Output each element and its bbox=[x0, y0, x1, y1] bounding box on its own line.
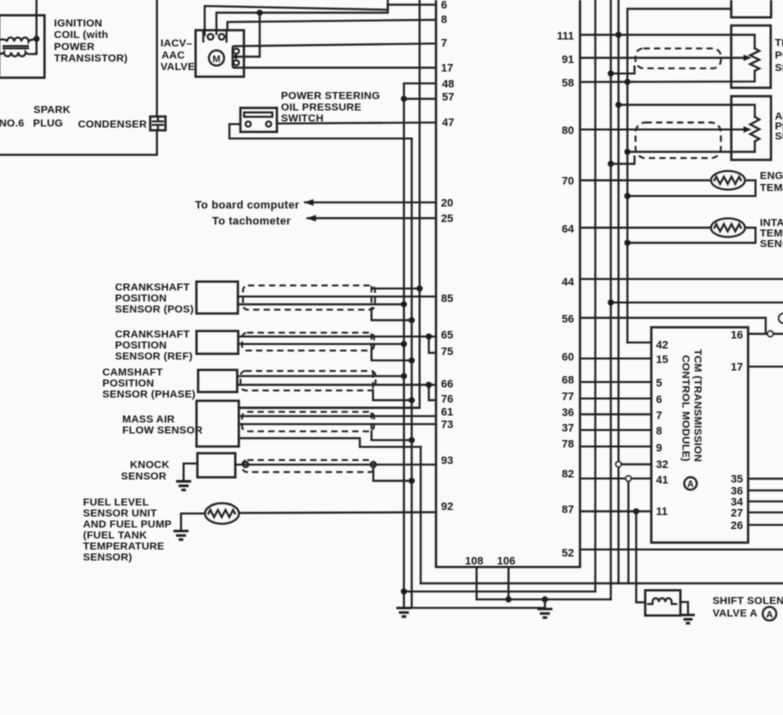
wire ECM pin 111 to TPS supply bbox=[580, 35, 755, 49]
svg-text:COIL (with: COIL (with bbox=[54, 29, 108, 41]
svg-text:48: 48 bbox=[442, 79, 454, 91]
ECM connector box (cut off at top) bbox=[436, 0, 580, 567]
wire bus2 to page edge bbox=[611, 301, 783, 303]
wire TCM 32 to connector on bus3 bbox=[621, 463, 651, 465]
svg-text:SENSOR: SENSOR bbox=[760, 238, 783, 250]
svg-text:IACV–: IACV– bbox=[161, 37, 193, 49]
solenoid ground bbox=[681, 615, 695, 623]
svg-text:61: 61 bbox=[441, 407, 453, 419]
POS signal wire to pin 85 bbox=[238, 295, 436, 297]
svg-text:58: 58 bbox=[562, 77, 574, 89]
crankshaft position sensor (POS) box bbox=[196, 282, 238, 314]
svg-text:VALVE A: VALVE A bbox=[713, 607, 758, 619]
svg-text:THROTTLE: THROTTLE bbox=[775, 37, 783, 49]
shielded cable knock bbox=[242, 460, 375, 472]
svg-text:SENSOR (POS): SENSOR (POS) bbox=[115, 304, 194, 316]
svg-text:TEMPERATURE: TEMPERATURE bbox=[760, 182, 783, 194]
wire bus4 to TCM pin 42 bbox=[627, 341, 651, 343]
circled A shift solenoid bbox=[763, 607, 777, 621]
bus B (shield drain bus) bbox=[412, 139, 545, 608]
svg-text:65: 65 bbox=[441, 330, 453, 342]
bus A (sensor return bus) top corner to pin 48 bbox=[404, 83, 436, 607]
small junction at IACV mid terminal bbox=[234, 55, 238, 59]
wire ECM 56 to TCM 16 connector bbox=[580, 318, 766, 334]
knock signal wire to pin 93 bbox=[235, 464, 436, 466]
To tachometer arrow wire (pin 25) bbox=[308, 217, 437, 219]
solenoid riser from pin 87 wire bbox=[636, 511, 645, 602]
power steering oil pressure switch box bbox=[240, 108, 277, 132]
center ground symbol bbox=[537, 609, 552, 618]
svg-text:SENSOR: SENSOR bbox=[775, 131, 783, 143]
engine temp sensor return to bus4 bbox=[627, 180, 755, 196]
REF return wire to bus A bbox=[238, 343, 404, 345]
svg-text:27: 27 bbox=[731, 507, 743, 519]
svg-text:91: 91 bbox=[562, 54, 574, 66]
switch terminal left bbox=[246, 122, 251, 127]
crankshaft position sensor (REF) box bbox=[197, 331, 239, 354]
svg-text:SENSOR: SENSOR bbox=[775, 62, 783, 74]
REF signal wire to pin 65 bbox=[238, 335, 436, 337]
svg-text:POWER STEERING: POWER STEERING bbox=[281, 90, 380, 102]
intake temp sensor wire (pin 64) bbox=[580, 227, 711, 229]
svg-text:41: 41 bbox=[656, 475, 668, 487]
svg-text:6: 6 bbox=[656, 394, 662, 406]
svg-text:26: 26 bbox=[731, 520, 743, 532]
svg-text:57: 57 bbox=[442, 91, 454, 103]
wire IACV right-top notch to ECM pin 7 bbox=[234, 44, 436, 47]
intake air temp sensor (thermistor) bbox=[711, 218, 745, 237]
ground rail to right (bus C lower to bus3) bbox=[421, 582, 783, 584]
junction bus A / pin 57 wire bbox=[401, 96, 407, 102]
svg-text:108: 108 bbox=[465, 556, 483, 568]
intake temp sensor return to bus4 bbox=[627, 228, 755, 243]
wire TCM 27 to page edge bbox=[748, 511, 783, 513]
wire TCM 16 to page edge bbox=[748, 333, 783, 335]
wire IACV third top terminal to ECM pin 8 bbox=[227, 20, 436, 30]
svg-text:92: 92 bbox=[441, 501, 453, 513]
APS supply wire from bus3 bbox=[619, 105, 755, 117]
wire TCM 35 to page edge bbox=[748, 478, 783, 480]
svg-text:52: 52 bbox=[562, 547, 574, 559]
svg-text:VALVE: VALVE bbox=[161, 61, 195, 73]
svg-text:OIL PRESSURE: OIL PRESSURE bbox=[281, 101, 361, 113]
svg-text:To tachometer: To tachometer bbox=[212, 215, 291, 227]
fuel sensor ground wire bbox=[181, 514, 205, 531]
MAF bottom wire to bus C lower bbox=[239, 438, 421, 447]
wire bus A to ECM pin 57 bbox=[404, 98, 436, 100]
PHASE return wire to bus A bbox=[237, 375, 404, 377]
center ground stem bbox=[544, 599, 546, 608]
engine temp sensor wire (pin 70) bbox=[580, 179, 711, 181]
svg-text:36: 36 bbox=[562, 407, 574, 419]
IACV top terminal coils bbox=[208, 34, 214, 40]
IACV right terminal coils bbox=[233, 49, 239, 54]
connector circle pin 41 bbox=[626, 476, 631, 481]
IACV right terminal bracket bbox=[233, 46, 235, 67]
wire ECM 36 to TCM 7 bbox=[580, 413, 651, 415]
bus1 ground link to bus A bbox=[404, 590, 595, 592]
ignition coil core bars bbox=[3, 45, 30, 47]
connector circle pin 16 bbox=[768, 331, 774, 337]
wire ECM 52 to page edge bbox=[580, 548, 783, 550]
svg-text:7: 7 bbox=[441, 37, 447, 49]
ignition coil box bbox=[0, 15, 45, 77]
svg-text:70: 70 bbox=[562, 175, 574, 187]
ignition coil secondary winding bbox=[0, 52, 37, 56]
APS shield drain to bus2 bbox=[611, 157, 635, 164]
shielded cable POS bbox=[243, 285, 375, 309]
knock sensor ground bbox=[176, 481, 191, 490]
MAF signal wire to pin 73 bbox=[239, 423, 436, 425]
wire ECM 87 to TCM 11 bbox=[580, 510, 651, 512]
svg-text:17: 17 bbox=[441, 63, 453, 75]
junction pin111 / bus3 bbox=[615, 32, 621, 38]
IACV-AAC valve box bbox=[196, 30, 244, 76]
pin 106 wire down from ECM bbox=[507, 567, 509, 599]
svg-text:PLUG: PLUG bbox=[33, 118, 63, 130]
wire ECM 78 to TCM 9 bbox=[580, 445, 651, 447]
svg-text:75: 75 bbox=[441, 346, 453, 358]
IACV top connector notch bbox=[203, 30, 226, 41]
svg-text:ENGINE: ENGINE bbox=[760, 170, 783, 182]
svg-text:85: 85 bbox=[441, 293, 453, 305]
ground line P (108/106 to bus2) bbox=[477, 598, 611, 600]
solenoid ground wire bbox=[680, 602, 688, 615]
svg-text:SPARK: SPARK bbox=[34, 104, 71, 116]
bus4 (sensor ground bus, top corner to cut-off box) bbox=[627, 9, 731, 343]
svg-text:CONDENSER: CONDENSER bbox=[78, 119, 147, 131]
wire from page top down crossing to IACV (middle) bbox=[216, 0, 387, 34]
spark-plug circuit outer box (bottom + right edge) bbox=[0, 130, 157, 155]
PHASE signal wire to pin 66 bbox=[237, 384, 436, 386]
MAF shield drain to bus B bbox=[372, 431, 412, 440]
bus2 (right shield/sensor ground bus) bbox=[610, 0, 612, 599]
svg-text:56: 56 bbox=[562, 313, 574, 325]
knock shield drain to bus B bbox=[373, 467, 411, 481]
shielded cable MAF bbox=[242, 412, 374, 432]
wire ECM 37 to TCM 8 bbox=[580, 429, 651, 431]
svg-text:11: 11 bbox=[656, 506, 668, 518]
PHASE hook to pin 76 bbox=[429, 385, 436, 400]
TPS return / ECM pin 58 wire bbox=[580, 71, 755, 82]
svg-text:35: 35 bbox=[731, 474, 743, 486]
svg-text:66: 66 bbox=[441, 378, 453, 390]
POS shield top drain to bus C bbox=[372, 287, 420, 289]
APS potentiometer resistor bbox=[750, 117, 759, 142]
bus3 (5V reference bus) bbox=[617, 0, 619, 583]
svg-text:93: 93 bbox=[441, 455, 453, 467]
junction middle wire / riser bbox=[257, 10, 263, 16]
wire ECM pin 44 to page edge bbox=[580, 278, 783, 280]
svg-text:IGNITION: IGNITION bbox=[54, 18, 102, 30]
mass air flow sensor box bbox=[197, 401, 239, 447]
svg-text:TCM (TRANSMISSION: TCM (TRANSMISSION bbox=[692, 349, 704, 462]
PHASE shield drain to bus B bbox=[373, 390, 412, 400]
left ground symbol (bus A / bus B) bbox=[396, 608, 411, 617]
svg-text:6: 6 bbox=[441, 0, 447, 12]
solenoid coil symbol bbox=[648, 598, 676, 604]
absolute pressure sensor box bbox=[731, 96, 771, 160]
switch terminal right bbox=[266, 122, 271, 127]
svg-text:111: 111 bbox=[557, 31, 574, 43]
svg-text:64: 64 bbox=[562, 224, 575, 236]
wire ECM 77 to TCM 6 bbox=[580, 397, 651, 399]
ignition coil (transformer) primary winding bbox=[0, 38, 37, 42]
svg-text:POWER: POWER bbox=[54, 41, 95, 53]
svg-text:9: 9 bbox=[656, 442, 662, 454]
svg-text:5: 5 bbox=[656, 378, 662, 390]
bus C upper (from page top to MAF top wire) bbox=[239, 0, 420, 408]
svg-text:SENSOR): SENSOR) bbox=[83, 552, 132, 564]
wire ECM 68 to TCM 5 bbox=[580, 381, 651, 383]
shielded cable REF bbox=[242, 333, 374, 351]
REF shield drain to bus B bbox=[372, 350, 412, 360]
svg-text:32: 32 bbox=[656, 459, 668, 471]
fuel level sensor (resistor in ellipse) bbox=[205, 503, 239, 524]
svg-text:106: 106 bbox=[497, 556, 515, 568]
wire switch left terminal down to shield-ground bus B bbox=[229, 124, 411, 138]
To board computer arrow wire (pin 20) bbox=[305, 201, 436, 203]
TPS potentiometer resistor bbox=[750, 48, 759, 71]
svg-text:82: 82 bbox=[562, 468, 574, 480]
svg-text:SENSOR: SENSOR bbox=[121, 470, 167, 482]
svg-text:CONTROL MODULE): CONTROL MODULE) bbox=[680, 355, 692, 462]
MAF signal wire to pin 61 bbox=[239, 415, 436, 417]
cut-off box at top right bbox=[731, 0, 771, 17]
POS return wire to bus A bbox=[238, 303, 404, 305]
fuel sensor ground bbox=[174, 531, 189, 540]
junction coil/top wire bbox=[33, 36, 39, 42]
svg-text:8: 8 bbox=[656, 426, 662, 438]
shift solenoid valve A box bbox=[645, 590, 680, 615]
junction pin58 / bus4 bbox=[624, 79, 630, 85]
svg-text:7: 7 bbox=[656, 410, 662, 422]
wire ECM 82 to TCM 41 bbox=[580, 477, 651, 479]
MAF top wire (joins bus C upper) bbox=[239, 407, 420, 409]
svg-text:20: 20 bbox=[441, 198, 453, 210]
APS return wire to bus4 bbox=[627, 142, 754, 152]
svg-text:SHIFT SOLENOID: SHIFT SOLENOID bbox=[713, 595, 783, 607]
camshaft position sensor (PHASE) box bbox=[198, 370, 237, 392]
svg-text:KNOCK: KNOCK bbox=[130, 459, 170, 471]
svg-text:87: 87 bbox=[562, 504, 574, 516]
svg-text:SENSOR (REF): SENSOR (REF) bbox=[115, 351, 193, 363]
wire TCM 34 to page edge bbox=[748, 500, 783, 502]
switch slot bbox=[244, 112, 272, 116]
svg-text:15: 15 bbox=[656, 354, 668, 366]
wire IACV top-left terminal to ECM pin 6 bbox=[205, 5, 436, 35]
wire TCM 26 to page edge bbox=[748, 524, 783, 526]
svg-text:8: 8 bbox=[441, 14, 447, 26]
bus C lower (down to ground rail) bbox=[420, 447, 422, 583]
APS wiper arrow (pin 80 wire) bbox=[580, 128, 745, 130]
TPS wiper arrow (pin 91 wire) bbox=[580, 57, 745, 59]
svg-text:To board computer: To board computer bbox=[195, 200, 300, 212]
wire TCM 17 to page edge bbox=[748, 366, 783, 368]
condenser capacitor symbol bbox=[153, 118, 163, 130]
shielded cable APS bbox=[636, 123, 721, 159]
condenser wire up to page top bbox=[156, 0, 158, 117]
svg-text:77: 77 bbox=[562, 391, 574, 403]
svg-text:A: A bbox=[687, 479, 694, 489]
pin 108 wire down from ECM bbox=[476, 567, 478, 599]
connector circle pin 32 bbox=[616, 462, 621, 467]
svg-text:37: 37 bbox=[562, 423, 574, 435]
TPS shield drain to bus2 bbox=[611, 67, 635, 74]
shielded cable PHASE bbox=[241, 371, 376, 391]
svg-text:78: 78 bbox=[562, 439, 574, 451]
svg-text:TRANSISTOR): TRANSISTOR) bbox=[54, 52, 128, 64]
svg-text:17: 17 bbox=[731, 362, 743, 374]
wire TCM 36 to page edge bbox=[748, 489, 783, 491]
connector circle at page edge bbox=[779, 314, 783, 324]
REF hook to pin 75 bbox=[429, 337, 436, 353]
svg-text:42: 42 bbox=[656, 340, 668, 352]
svg-text:80: 80 bbox=[562, 125, 574, 137]
wire from page top into coil bbox=[35, 0, 37, 54]
svg-text:44: 44 bbox=[562, 277, 575, 289]
svg-text:76: 76 bbox=[441, 394, 453, 406]
junction pin87 / solenoid riser bbox=[633, 508, 639, 514]
knock shield end circles bbox=[243, 462, 248, 467]
throttle position sensor box bbox=[731, 26, 771, 88]
svg-text:A: A bbox=[766, 610, 773, 621]
TCM rotated label bbox=[680, 349, 704, 462]
svg-text:68: 68 bbox=[562, 375, 574, 387]
wire switch right terminal to ECM pin 47 bbox=[277, 123, 436, 124]
knock sensor ground wire bbox=[184, 464, 198, 481]
svg-text:POSITION: POSITION bbox=[775, 49, 783, 61]
shielded cable TPS bbox=[636, 48, 721, 68]
svg-text:AAC: AAC bbox=[162, 49, 186, 61]
svg-text:FLOW SENSOR: FLOW SENSOR bbox=[122, 425, 203, 437]
wire ECM 60 to TCM 15 bbox=[580, 357, 651, 359]
svg-text:60: 60 bbox=[562, 352, 574, 364]
svg-text:47: 47 bbox=[442, 117, 454, 129]
svg-text:16: 16 bbox=[731, 330, 743, 342]
svg-text:SENSOR (PHASE): SENSOR (PHASE) bbox=[102, 389, 195, 401]
svg-text:NO.6: NO.6 bbox=[0, 118, 24, 130]
bus4 lower segment from pin41 connector bbox=[627, 481, 629, 583]
engine temp sensor (thermistor) bbox=[711, 171, 745, 190]
riser from IACV right upper area to middle wire bbox=[239, 13, 260, 57]
svg-text:MASS AIR: MASS AIR bbox=[122, 413, 175, 425]
knock sensor box bbox=[197, 453, 235, 477]
POS shield bottom drain to bus B bbox=[372, 310, 412, 321]
bus1 (right ground return bus) bbox=[594, 0, 596, 592]
svg-text:25: 25 bbox=[441, 213, 453, 225]
svg-text:73: 73 bbox=[441, 419, 453, 431]
condenser box bbox=[150, 117, 165, 131]
wire IACV right-bottom to ECM pin 17 bbox=[234, 67, 436, 69]
IACV motor circle bbox=[209, 50, 224, 65]
TCM (transmission control module) box bbox=[651, 327, 748, 542]
circled A inside TCM bbox=[684, 477, 697, 490]
wire fuel sensor to ECM pin 92 bbox=[239, 511, 436, 514]
svg-text:M: M bbox=[213, 54, 221, 65]
